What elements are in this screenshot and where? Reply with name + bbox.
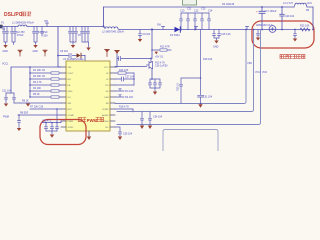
ground (293, 39, 297, 42)
svg-text:PWM: PWM (68, 121, 74, 123)
capacitor C25 (56, 123, 59, 132)
ground (26, 104, 30, 107)
ground (3, 45, 7, 48)
diode D1 (175, 27, 181, 32)
svg-text:VO2: VO2 (262, 71, 267, 74)
wire: drain line (117, 58, 151, 60)
wire: riser to rail (312, 7, 314, 30)
svg-text:R7 10K C35: R7 10K C35 (30, 105, 44, 108)
U1 pins left (61, 67, 66, 127)
junction dots rail (151, 29, 153, 31)
svg-text:C9 104: C9 104 (143, 33, 151, 36)
svg-text:PG: PG (105, 85, 108, 87)
svg-text:C13: C13 (201, 8, 206, 11)
capacitor C17 on riser (259, 7, 265, 30)
svg-text:+: + (256, 10, 258, 14)
resistor R22 (300, 28, 310, 31)
capacitor C35 row127 (115, 127, 121, 136)
diode D2 (77, 53, 81, 58)
capacitor C5 triple (69, 27, 78, 45)
ground (71, 45, 75, 48)
capacitor C23 (45, 123, 48, 132)
svg-text:AGND: AGND (102, 114, 109, 117)
svg-text:0R: 0R (306, 9, 309, 12)
svg-text:C11: C11 (187, 8, 192, 11)
resistor R12 (152, 49, 171, 51)
ground (140, 126, 144, 130)
svg-text:R2 10K 1%: R2 10K 1% (33, 75, 46, 78)
ground (17, 128, 21, 131)
svg-text:C21 104: C21 104 (2, 89, 12, 92)
svg-text:L2 SMD7045 100uH: L2 SMD7045 100uH (102, 30, 124, 33)
capacitor C18 (257, 30, 260, 38)
power port 4 (155, 52, 158, 55)
capacitor C12 (194, 13, 197, 30)
svg-text:GND: GND (33, 50, 39, 53)
capacitor C26 series (119, 57, 121, 61)
resistor R2 (30, 78, 61, 80)
net flag VOUT (195, 27, 198, 30)
node: bus to top rail (103, 26, 105, 28)
power arrow VCC (115, 50, 119, 52)
capacitor C23 input (18, 115, 21, 128)
wire: join (46, 131, 57, 134)
wire: row109 (115, 109, 133, 112)
wire: Q1 source drop (151, 69, 153, 79)
svg-text:PWM: PWM (87, 118, 98, 123)
resistor R1 (30, 72, 61, 74)
svg-text:VCC1: VCC1 (2, 63, 9, 66)
capacitor C14 (208, 13, 211, 30)
red annotation box output (252, 21, 314, 48)
wire: output rail (119, 29, 310, 31)
wire: VIN drop to U1 (58, 27, 61, 68)
wire: gate row (115, 66, 147, 68)
wire: fb loop inner (115, 30, 246, 104)
capacitor C27a (122, 77, 124, 81)
capacitor C6 triple (81, 27, 90, 48)
capacitor C10 (180, 13, 183, 30)
capacitor C15 pair (213, 30, 221, 41)
svg-text:ILIM: ILIM (104, 97, 108, 99)
wire: c22 link (6, 93, 20, 103)
svg-text:VO1: VO1 (255, 71, 260, 74)
svg-text:470uF: 470uF (17, 34, 24, 37)
inductor L3 (294, 5, 295, 8)
svg-text:NC: NC (105, 127, 109, 129)
capacitor C4 (41, 27, 44, 37)
svg-text:SYNC: SYNC (68, 127, 74, 129)
svg-text:VIN: VIN (68, 67, 72, 69)
wire: pwm input row (18, 114, 61, 116)
wire: riser to top rail (103, 7, 105, 27)
capacitor C2 pair (11, 27, 17, 45)
transistor Q1 (147, 62, 153, 69)
svg-text:R5 1K: R5 1K (33, 93, 40, 96)
svg-text:COMP: COMP (68, 115, 75, 117)
svg-text:BST: BST (68, 109, 73, 111)
inductor L1 (18, 25, 27, 26)
wire: row109 drop (56, 109, 58, 123)
wire: riser right (280, 7, 284, 30)
inductor L2 (105, 27, 118, 29)
svg-text:C17 100uF: C17 100uF (265, 10, 277, 13)
U1 bottom pin (88, 131, 90, 136)
svg-text:C36 471: C36 471 (42, 119, 52, 122)
ground (87, 137, 91, 141)
svg-text:R14 10K: R14 10K (119, 69, 129, 72)
capacitor C3 pair (33, 27, 39, 45)
capacitor C1 pair (3, 27, 9, 45)
net flag 5V (246, 27, 249, 30)
net flag row 91 (115, 89, 124, 91)
svg-text:C26 1uF/50: C26 1uF/50 (155, 64, 168, 67)
wire: pwm filter row (42, 121, 61, 123)
svg-text:R20 1K: R20 1K (177, 83, 180, 91)
svg-text:U1 XL2596S-5.0E1: U1 XL2596S-5.0E1 (63, 58, 84, 61)
power port 1 (18, 49, 22, 51)
svg-text:GND: GND (213, 46, 219, 49)
resistor R4 (30, 90, 61, 92)
svg-text:+5V G1: +5V G1 (155, 55, 164, 58)
svg-text:GND: GND (68, 91, 73, 93)
svg-text:D2 1N4148: D2 1N4148 (222, 3, 235, 6)
svg-text:VIN: VIN (44, 20, 48, 23)
wire: left input bus (2, 26, 104, 28)
svg-text:R12 47R: R12 47R (160, 46, 170, 49)
capacitor bank top bus (181, 12, 209, 14)
ground (86, 48, 90, 51)
svg-text:R8 51R: R8 51R (20, 111, 28, 114)
ground (4, 104, 8, 107)
capacitor C20 (5, 93, 8, 103)
svg-text:50V: 50V (44, 35, 49, 38)
capacitor C9 (139, 30, 142, 39)
capacitor C7 series (69, 54, 71, 58)
svg-text:PG 10K: PG 10K (125, 90, 134, 93)
node SW (151, 29, 153, 31)
capacitor C11 (187, 13, 190, 30)
frame box bottom (163, 130, 218, 152)
ground (153, 92, 157, 95)
snubber network (198, 30, 204, 104)
svg-text:L3 4.7uH: L3 4.7uH (283, 2, 293, 5)
svg-text:D1 SS34: D1 SS34 (170, 34, 180, 37)
U1 pin names (68, 67, 75, 129)
power port 2 (43, 49, 47, 51)
svg-text:C15 C16: C15 C16 (221, 33, 231, 36)
ground (138, 39, 142, 42)
ground (118, 137, 122, 141)
ground (214, 41, 218, 44)
svg-text:C10: C10 (180, 10, 185, 13)
svg-text:FB1: FB1 (248, 62, 253, 65)
yellow IC U1 (66, 61, 110, 131)
svg-text:R4 10K: R4 10K (33, 87, 41, 90)
wire: VCC row (11, 67, 61, 97)
ground (148, 126, 152, 130)
capacitor C34 (149, 112, 152, 126)
capacitor C33 (141, 112, 144, 126)
red annotation box pwm (40, 120, 86, 145)
wire: top rail (104, 6, 295, 8)
wire: bootstrap row above U1 (58, 55, 85, 57)
svg-text:DSL/PO: DSL/PO (4, 12, 23, 18)
wire: row 103 (20, 102, 61, 104)
net flag row 97 (115, 95, 124, 97)
net flag VIN (46, 23, 49, 27)
wire: SW drop (151, 30, 153, 59)
red text output (pseudo CJK) (280, 55, 305, 59)
svg-text:C8 104: C8 104 (60, 50, 68, 53)
connector P1 stub (0, 25, 3, 29)
capacitor C19 (294, 30, 297, 39)
capacitor bank right (149, 79, 162, 91)
svg-text:C20 104: C20 104 (285, 15, 295, 18)
svg-text:C31 104: C31 104 (203, 96, 213, 99)
wire: comp row (115, 84, 134, 86)
capacitor C24 (51, 123, 54, 132)
red text PWM (pseudo CJK) (78, 118, 86, 122)
svg-text:C35 104: C35 104 (123, 133, 133, 136)
svg-text:EN: EN (68, 79, 71, 81)
U1 pins right (110, 67, 115, 127)
svg-text:C14: C14 (208, 10, 213, 13)
svg-text:CS: CS (68, 97, 72, 99)
wire: row 73 (115, 72, 134, 74)
power port 3 (105, 49, 109, 51)
svg-text:R1 10K 1%: R1 10K 1% (33, 69, 46, 72)
svg-text:PWM: PWM (3, 116, 9, 119)
svg-text:L1 SMD4328 470uH: L1 SMD4328 470uH (12, 22, 34, 25)
svg-text:VCC: VCC (104, 67, 109, 69)
resistor R5 (30, 96, 61, 98)
svg-text:VOUT: VOUT (68, 73, 75, 75)
capacitor C22 (13, 93, 16, 103)
svg-text:R3 4.7K: R3 4.7K (33, 81, 42, 84)
net flag SW (162, 27, 165, 30)
capacitor C13 (201, 13, 204, 30)
wire: row 79 (115, 78, 134, 80)
svg-text:SS 103: SS 103 (125, 96, 134, 99)
svg-text:C27 104: C27 104 (125, 75, 135, 78)
resistor R3 (30, 84, 61, 86)
svg-text:R21: R21 (308, 2, 313, 5)
svg-text:R22 10K: R22 10K (300, 25, 310, 28)
svg-text:R6 1K: R6 1K (22, 99, 29, 102)
ground (33, 45, 37, 48)
svg-text:C12: C12 (194, 10, 199, 13)
wire: output sense 2 (117, 30, 261, 125)
ground (198, 104, 202, 108)
wire: row 109 (30, 108, 61, 110)
svg-text:COMP: COMP (102, 109, 109, 111)
svg-text:R19 10K: R19 10K (203, 58, 213, 61)
wire: link rows (133, 73, 135, 85)
svg-text:R18 4.7K: R18 4.7K (119, 105, 129, 108)
connector J2 (183, 0, 197, 5)
svg-text:GND: GND (3, 50, 9, 53)
wire: output sense 1 (117, 30, 254, 112)
svg-text:C34 104: C34 104 (153, 116, 163, 119)
ground (256, 38, 260, 41)
ground (50, 135, 54, 138)
